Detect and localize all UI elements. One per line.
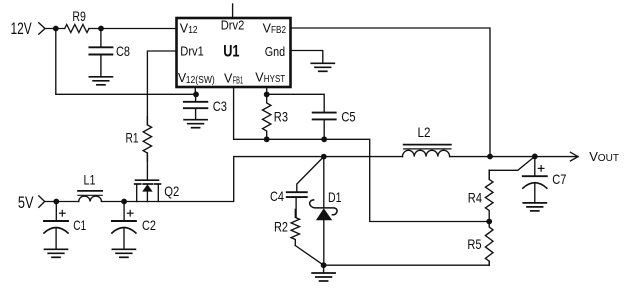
svg-text:R5: R5 (467, 236, 481, 252)
node F (C5 bottom) (321, 136, 327, 142)
svg-text:C8: C8 (116, 43, 130, 59)
svg-text:L1: L1 (84, 171, 96, 187)
wire C4 to R2 (295, 197, 297, 217)
wire R1 to Q2 gate (146, 153, 148, 180)
wire Drv1 pin to R1 (147, 51, 176, 125)
ground under D1 (323, 265, 325, 273)
svg-text:Drv2: Drv2 (221, 18, 245, 32)
svg-text:R4: R4 (468, 189, 482, 205)
svg-text:C5: C5 (341, 109, 355, 125)
node H (C2 junction) (121, 199, 127, 205)
wire VFB1 pin down and right to feedback rail (234, 87, 490, 222)
ground under C1 (45, 248, 68, 250)
capacitor C3 (195, 94, 197, 101)
svg-text:R3: R3 (274, 109, 288, 125)
node J (D1/R2/R5 ground node) (321, 262, 327, 268)
wire switch node diagonal to C4 (297, 157, 324, 193)
wire R2 bottom diagonal to ground node (295, 246, 323, 266)
output arrow VOUT (571, 152, 579, 161)
input port 5V chevron (39, 196, 45, 208)
node I (switch node) (321, 154, 327, 160)
svg-text:FB2: FB2 (271, 25, 286, 36)
wire VHYST node to C5 top (267, 94, 325, 112)
wire Gnd pin to ground (291, 51, 323, 64)
svg-text:V: V (224, 72, 233, 86)
node D (VHYST/R3/C5 top) (264, 92, 270, 98)
IC U1 box (177, 18, 291, 87)
resistor R1 (143, 117, 151, 161)
svg-text:C4: C4 (270, 188, 284, 204)
svg-text:HYST: HYST (264, 74, 285, 85)
wire 5V input rail (45, 157, 403, 202)
node G (C1 junction) (53, 199, 59, 205)
svg-text:12(SW): 12(SW) (186, 75, 215, 86)
capacitor C5 (313, 112, 336, 114)
wire 12V node down to V12SW rail (56, 29, 196, 95)
wire C7 branch diagonal to R4 (489, 156, 535, 179)
ground under C8 (100, 55, 102, 77)
resistor R3 (263, 94, 271, 140)
svg-text:U1: U1 (223, 42, 239, 60)
ground at Gnd pin (311, 62, 334, 64)
ground under C2 (112, 248, 135, 250)
capacitor C7 (534, 156, 536, 176)
capacitor C1 (55, 202, 57, 222)
diode D1 (schottky) (310, 157, 337, 266)
svg-text:L2: L2 (418, 124, 431, 140)
node C (V12SW/C3 junction) (193, 92, 199, 98)
resistor R9 (65, 25, 89, 33)
node M (R4/R5 junction) (486, 219, 492, 225)
input port 12V chevron (39, 23, 45, 34)
svg-text:OUT: OUT (598, 153, 619, 164)
wire L2 to VOUT (450, 156, 578, 158)
svg-text:D1: D1 (328, 189, 342, 205)
ground under C7 (523, 202, 546, 204)
wire VFB2 pin to VOUT rail (291, 28, 491, 156)
wire 12V input to R9 (45, 28, 177, 30)
resistor R4 (485, 170, 493, 221)
svg-text:C1: C1 (73, 217, 86, 233)
inductor L2 (403, 150, 450, 156)
node B (R9/C8 junction) (98, 26, 104, 32)
svg-text:C7: C7 (552, 171, 566, 187)
svg-text:R1: R1 (126, 130, 139, 146)
transistor Q2 (P-MOSFET) (135, 180, 161, 201)
node E (R3 bottom) (264, 136, 270, 142)
svg-text:12V: 12V (11, 20, 32, 38)
capacitor C4 (287, 191, 307, 193)
svg-text:R2: R2 (274, 219, 288, 235)
wire R5 bottom to ground node (324, 261, 490, 265)
capacitor C8 (100, 29, 102, 48)
svg-text:C3: C3 (213, 98, 227, 114)
resistor R2 (291, 209, 299, 245)
resistor R5 (485, 222, 493, 266)
wire V12SW pin stub (194, 87, 196, 94)
svg-text:R9: R9 (72, 8, 86, 24)
svg-text:12: 12 (188, 25, 197, 36)
svg-text:Q2: Q2 (164, 183, 179, 199)
node L (C7 junction) (532, 154, 538, 160)
wire Drv2 pin stub up (232, 4, 234, 17)
wire VHYST pin stub (266, 87, 268, 94)
svg-text:Gnd: Gnd (265, 45, 285, 59)
svg-text:C2: C2 (142, 217, 156, 233)
node A (12V junction) (53, 26, 59, 32)
svg-text:5V: 5V (18, 194, 34, 212)
inductor L1 (79, 196, 102, 201)
capacitor C2 (123, 202, 125, 222)
ground under C3 (195, 108, 197, 120)
node K (VFB2/VOUT rail) (487, 154, 493, 160)
svg-text:Drv1: Drv1 (180, 44, 204, 58)
svg-text:FB1: FB1 (233, 76, 243, 87)
